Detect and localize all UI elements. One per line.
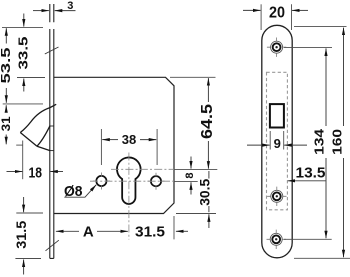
Ø8 hole right: [151, 176, 161, 186]
Ø8 hole left: [96, 176, 106, 186]
svg-text:38: 38: [122, 132, 137, 147]
extension line bottom hole right y239.3: [284, 238, 332, 240]
euro profile cylinder: [117, 157, 141, 203]
hidden lock case dashed rectangle: [267, 72, 288, 210]
slot tick lower in plate: [50, 150, 54, 152]
svg-text:31.5: 31.5: [13, 221, 29, 249]
svg-text:8: 8: [184, 173, 196, 179]
dimension 20: [260, 4, 262, 30]
extension line hook top y103.9: [3, 103, 43, 105]
extension line top reference y27.4: [2, 26, 43, 28]
extension line plate bottom left y258.5: [15, 258, 41, 260]
extension line 18/hook tip vertical x22.7: [22, 141, 24, 180]
svg-text:3: 3: [67, 0, 73, 12]
svg-text:31.5: 31.5: [135, 223, 165, 240]
svg-text:A: A: [83, 223, 94, 240]
extension line hole center right y181.4: [174, 180, 198, 182]
svg-text:9: 9: [274, 136, 281, 151]
centerline vertical through cylinder: [128, 153, 130, 240]
svg-text:18: 18: [28, 165, 42, 182]
face plate front outline: [262, 25, 292, 257]
extension line case bottom right y213.5: [176, 213, 216, 215]
extension line top hole right y47.4: [284, 46, 332, 48]
screw hole bottom: [267, 230, 286, 249]
dimension 31.5 bottom (cyl to case edge): [176, 230, 188, 232]
extension line cylinder center right y169.4: [174, 168, 217, 170]
svg-text:64.5: 64.5: [199, 104, 216, 139]
dimension 8 (outside arrows): [190, 157, 192, 195]
extension line case top left y77.5: [17, 77, 45, 79]
dimension 31.5 bottom-left: [23, 197, 25, 275]
dimension 38: [100, 129, 102, 165]
hook bolt: [20, 104, 56, 150]
dimension 18: [7, 171, 64, 173]
dimension 160: [343, 28, 345, 258]
extension line plate bottom right y258.3: [294, 257, 350, 259]
dimension 9 (cutout width, outside arrows): [269, 131, 271, 150]
dimension 30.5: [208, 171, 210, 228]
dimension A: [56, 230, 128, 232]
dimension 33.5: [23, 14, 25, 92]
center mark left hole: [93, 173, 110, 190]
extension line hook notch y145.1: [16, 144, 23, 146]
dimension 53.5: [5, 28, 7, 103]
center mark right hole: [148, 173, 165, 190]
screw hole middle: [267, 187, 286, 206]
dimension 3 (plate thickness): [33, 10, 76, 12]
centerline horizontal through holes: [90, 180, 174, 182]
lock case outline: [54, 77, 174, 213]
centerline horizontal through cylinder: [111, 168, 174, 170]
slot tick upper in plate: [50, 125, 54, 127]
face plate break mark upper: [45, 47, 59, 54]
screw hole top: [267, 38, 286, 57]
extension line case bottom left y213: [16, 212, 43, 214]
hook cutout: [270, 104, 284, 127]
svg-text:13.5: 13.5: [296, 165, 326, 182]
face plate edge view: main segment: [50, 29, 54, 258]
dimension 134: [325, 48, 327, 238]
svg-text:30.5: 30.5: [197, 178, 212, 205]
face plate edge view: upper broken segment: [50, 4, 54, 22]
svg-text:53.5: 53.5: [0, 48, 13, 84]
svg-text:33.5: 33.5: [16, 37, 31, 70]
dimension 31 (hook): [5, 105, 7, 144]
svg-text:160: 160: [331, 129, 345, 155]
extension line plate top right y26.6: [294, 26, 347, 28]
svg-text:31: 31: [0, 116, 13, 131]
face plate break mark lower: [46, 240, 59, 251]
svg-text:134: 134: [312, 129, 326, 155]
extension line case top right y77.3: [170, 76, 216, 78]
extension line case right edge down x174: [173, 216, 175, 239]
dimension 64.5: [207, 78, 209, 169]
svg-text:20: 20: [269, 4, 285, 21]
